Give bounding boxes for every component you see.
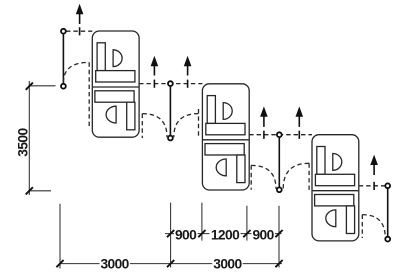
module M3 upper wall xyxy=(317,147,325,175)
module M3 lower fixture xyxy=(326,210,336,227)
dim lower tick 1 xyxy=(56,260,63,267)
arrow A2 shaft xyxy=(153,65,155,76)
module M3 lower wall xyxy=(346,206,354,234)
tick arrow3 crossing xyxy=(187,80,189,88)
phantom line right of M3 xyxy=(361,215,363,238)
phantom line left of M3 xyxy=(308,163,310,190)
module M2 upper bench xyxy=(206,123,245,134)
arrow A1 shaft xyxy=(79,13,81,24)
arrow A6 shaft xyxy=(373,164,375,175)
dim 3000b label xyxy=(212,256,243,271)
dim upper tick 3 xyxy=(243,230,250,237)
dim upper tick 2 xyxy=(198,230,205,237)
module M2 outline xyxy=(202,84,249,190)
arrow A3 shaft xyxy=(187,65,189,76)
phantom line left of M2 xyxy=(198,109,200,138)
phantom line left of M1 xyxy=(88,62,90,128)
node circle C6 xyxy=(277,187,282,192)
dim 900b label xyxy=(252,227,276,242)
centerline row 2 xyxy=(139,83,202,85)
tick arrow1 crossing xyxy=(79,27,81,35)
arrow A5 shaft xyxy=(298,116,300,127)
dim 3500 bottom tick xyxy=(26,187,33,194)
phantom line right of M1 xyxy=(141,114,143,138)
module M2 lower wall xyxy=(237,155,245,183)
swing arc M2 side xyxy=(174,114,199,138)
centerline row 1 xyxy=(66,30,92,32)
drop line C3-C4 xyxy=(169,86,171,136)
arrow A3 head xyxy=(184,56,192,66)
dim 3500 line xyxy=(28,81,30,195)
svg-text:3000: 3000 xyxy=(100,256,129,271)
svg-text:3000: 3000 xyxy=(213,256,242,271)
module M1 upper bench xyxy=(96,71,135,82)
swing arc M2 side lower xyxy=(251,165,276,189)
module M2 upper fixture xyxy=(223,103,232,120)
node circle C1 xyxy=(61,29,66,34)
module M1 xyxy=(92,31,139,137)
swing arc M3 side xyxy=(283,163,309,189)
tick arrow4 crossing xyxy=(263,131,265,139)
svg-text:3500: 3500 xyxy=(16,128,31,157)
dim 3500 bottom extension xyxy=(29,190,51,192)
drop line C7-C8 xyxy=(387,188,389,237)
swing arc M1 side xyxy=(142,114,167,138)
extension line c xyxy=(201,203,203,241)
module M3 divider xyxy=(313,190,359,192)
node circle C4 xyxy=(168,136,173,141)
extension line a xyxy=(59,204,61,269)
module M1 lower wall xyxy=(127,102,135,130)
dim upper tick 1 xyxy=(167,230,174,237)
arrow A4 head xyxy=(260,106,268,116)
extension line e xyxy=(278,206,280,268)
swing arc right of M3 xyxy=(362,215,385,238)
module M3 outline xyxy=(312,135,359,241)
module M2 xyxy=(202,84,249,190)
drop line C1-C2 xyxy=(62,34,64,84)
dim row upper line xyxy=(165,233,282,235)
tick arrow6 crossing xyxy=(373,182,375,190)
tick arrow2 crossing xyxy=(153,80,155,88)
module M1 outline xyxy=(92,31,139,137)
dim upper tick 4 xyxy=(275,230,282,237)
node circle C7 xyxy=(385,183,390,188)
swing arc left of M1 xyxy=(63,62,89,82)
node circle C2 xyxy=(61,84,66,89)
arrow A1 head xyxy=(76,4,84,14)
node circle C3 xyxy=(168,81,173,86)
module M1 divider xyxy=(93,86,139,88)
module M3 upper bench xyxy=(315,174,354,185)
module M2 lower bench xyxy=(205,144,244,155)
module M2 divider xyxy=(203,139,249,141)
drop line C5-C6 xyxy=(278,137,280,187)
arrow A4 shaft xyxy=(263,116,265,127)
arrow A2 head xyxy=(151,56,159,66)
arrow A6 head xyxy=(370,155,378,165)
tick arrow5 crossing xyxy=(298,131,300,139)
dim 3000a label xyxy=(100,256,131,271)
arrow A5 head xyxy=(296,106,304,116)
dim 1200 label xyxy=(210,227,241,242)
svg-text:900: 900 xyxy=(175,227,197,242)
module M1 lower fixture xyxy=(106,106,116,123)
module M1 upper wall xyxy=(97,43,105,71)
dim 3500 top extension xyxy=(29,85,55,87)
dim lower tick 3 xyxy=(275,260,282,267)
extension line b xyxy=(170,203,172,268)
centerline row 3 xyxy=(249,134,312,136)
module M2 lower fixture xyxy=(216,159,226,176)
dim row lower line xyxy=(59,263,282,265)
dim 3500 top tick xyxy=(26,83,33,90)
module M3 xyxy=(312,135,359,241)
module M2 upper wall xyxy=(207,96,215,124)
centerline row 4 xyxy=(359,185,385,187)
node circle C5 xyxy=(277,132,282,137)
svg-text:900: 900 xyxy=(252,227,274,242)
extension line d xyxy=(246,206,248,241)
svg-text:1200: 1200 xyxy=(211,227,240,242)
dim lower tick 2 xyxy=(167,260,174,267)
module M1 upper fixture xyxy=(113,50,122,67)
module M1 lower bench xyxy=(95,91,134,102)
module M3 upper fixture xyxy=(333,154,342,171)
module M3 lower bench xyxy=(315,195,354,206)
dim 900a label xyxy=(174,227,198,242)
node circle C8 xyxy=(385,237,390,242)
phantom line right of M2 xyxy=(250,165,252,189)
